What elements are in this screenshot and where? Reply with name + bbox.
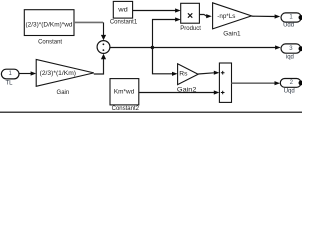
wire add to outport Uqd: [232, 82, 276, 84]
inport 1 TL: [1, 69, 19, 79]
svg-text:Product: Product: [180, 26, 201, 32]
svg-text:Rs: Rs: [179, 71, 187, 77]
constant block Constant value (2/3)*(D/Km)*wd: [24, 10, 74, 36]
svg-text:iqd: iqd: [286, 55, 294, 61]
svg-text:Constant1: Constant1: [110, 20, 138, 26]
svg-text:(2/3)*(1/Km): (2/3)*(1/Km): [40, 71, 76, 77]
outport 2 Uqd: [280, 79, 303, 88]
junction node: [151, 46, 154, 49]
wire Constant2 to add input 2: [139, 92, 214, 94]
bottom border line: [0, 112, 302, 114]
svg-text:Udd: Udd: [283, 23, 294, 29]
wire Gain2 to add input 1: [198, 73, 214, 74]
outport 3 iqd: [281, 44, 303, 53]
svg-text:Gain1: Gain1: [223, 32, 241, 38]
wire Product to Gain1: [199, 15, 206, 17]
wire Constant to sum (right then down): [74, 21, 103, 23]
svg-text:Constant2: Constant2: [112, 106, 140, 112]
gain block Gain (2/3)*(1/Km): [36, 60, 94, 87]
gain block Gain1 -np*Ls: [213, 3, 252, 29]
constant block Constant2 value Km*wd: [110, 79, 139, 105]
wire Constant1 to Product input 1: [133, 10, 176, 12]
wire branch down to Gain2: [153, 48, 173, 74]
svg-text:Gain: Gain: [57, 90, 70, 96]
constant block Constant1 value wd: [113, 1, 132, 18]
svg-text:Uqd: Uqd: [284, 88, 295, 94]
wire Gain1 to outport Udd: [252, 15, 275, 17]
wire branch up to Product input 2: [153, 20, 176, 48]
add block (sum rectangle): [219, 63, 231, 102]
svg-text:Km*wd: Km*wd: [114, 90, 134, 96]
wire sum to outport iqd: [110, 47, 276, 49]
wire TL to Gain: [19, 73, 31, 75]
gain block Gain2 Rs: [178, 64, 199, 85]
svg-text:-np*Ls: -np*Ls: [217, 14, 235, 20]
svg-text:(2/3)*(D/Km)*wd: (2/3)*(D/Km)*wd: [26, 22, 73, 28]
svg-text:wd: wd: [117, 7, 128, 14]
svg-text:Constant: Constant: [38, 39, 62, 45]
svg-text:TL: TL: [5, 80, 13, 86]
wire Gain to sum (right then up): [94, 59, 104, 74]
product block Product: [181, 3, 200, 23]
sum block (round): [97, 41, 110, 54]
outport 1 Udd: [281, 13, 303, 22]
